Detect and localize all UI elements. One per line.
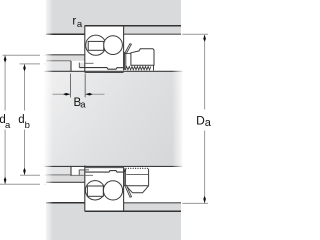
svg-text:a: a (5, 120, 11, 131)
svg-text:b: b (25, 120, 30, 131)
svg-text:a: a (205, 117, 211, 129)
svg-text:a: a (77, 19, 83, 30)
svg-text:a: a (80, 100, 86, 111)
svg-text:r: r (72, 16, 76, 28)
svg-text:D: D (196, 113, 205, 127)
